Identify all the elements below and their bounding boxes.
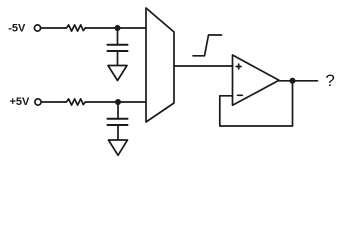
svg-text:-5V: -5V <box>8 23 26 35</box>
svg-text:?: ? <box>325 71 334 90</box>
svg-text:+5V: +5V <box>10 96 31 108</box>
